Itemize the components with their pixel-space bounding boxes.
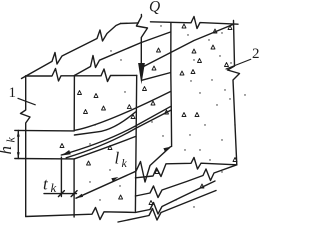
wire left vertical edge V1 with break xyxy=(21,76,31,217)
arrowhead hk dimension bottom xyxy=(17,152,20,158)
wire key top companion edge d2 xyxy=(74,112,135,135)
concrete texture dots xyxy=(89,25,245,207)
label hk rotated xyxy=(0,137,18,155)
arrowhead lk dimension left xyxy=(111,177,118,182)
wire slot bottom edge C xyxy=(75,137,136,159)
concrete texture triangles xyxy=(60,24,237,205)
wire bottom cut edge lowest with breaks xyxy=(135,181,215,214)
wire lk extension line xyxy=(170,111,172,147)
wire key bottom front edge A xyxy=(61,106,171,155)
svg-text:1: 1 xyxy=(9,85,17,101)
arrowhead lk dimension tip xyxy=(76,194,83,199)
wire joint front vertical V2 xyxy=(73,76,75,131)
wire key far end vertical xyxy=(170,73,173,112)
wire top back edge H2 with break xyxy=(121,17,239,29)
wire bottom cut edge lower with breaks xyxy=(135,165,236,198)
wire key bottom companion edge A2 xyxy=(66,110,171,158)
svg-text:h: h xyxy=(0,146,15,155)
svg-text:k: k xyxy=(4,137,18,143)
wire tk right extension V3b xyxy=(73,159,75,217)
wire back vertical edge V7 xyxy=(170,23,172,73)
svg-text:2: 2 xyxy=(252,46,260,62)
wire bottom cut edge lowest with break xyxy=(118,191,216,223)
dimension lk line B with break and arrows xyxy=(76,147,171,199)
wire member2 front-left vertical V6 xyxy=(135,75,136,211)
wire key top edge right of Q arrow e1 xyxy=(142,73,171,81)
arrowhead hk dimension top xyxy=(17,130,20,136)
wire hk bottom extension H4 xyxy=(15,158,74,160)
wire joint receding edge D2 with break xyxy=(74,32,170,76)
wire top front edge H1 with breaks xyxy=(26,69,137,82)
wire slot bottom front edge with break and back bottom edge xyxy=(135,158,236,178)
svg-text:Q: Q xyxy=(149,0,160,16)
wire right cut edge V8 with break xyxy=(228,21,240,165)
dimension hk line with arrows xyxy=(17,130,19,158)
wire top-left receding edge D1 with breaks xyxy=(22,24,121,79)
wire top face joint line D3 xyxy=(142,25,233,68)
wire hk top extension H3 xyxy=(15,129,74,132)
svg-text:l: l xyxy=(115,149,120,168)
dimension tk line with tick marks xyxy=(44,191,77,197)
force Q arrow with break xyxy=(136,15,147,67)
arrowhead lk dimension right xyxy=(163,147,170,152)
wire key top front edge d1 xyxy=(74,92,170,131)
svg-text:k: k xyxy=(122,156,128,170)
arrowhead on key bottom edge left tip xyxy=(62,150,71,156)
wire bottom edge member1 with break xyxy=(26,208,136,220)
wire tk left extension V2b xyxy=(60,157,62,196)
svg-text:k: k xyxy=(51,180,57,195)
